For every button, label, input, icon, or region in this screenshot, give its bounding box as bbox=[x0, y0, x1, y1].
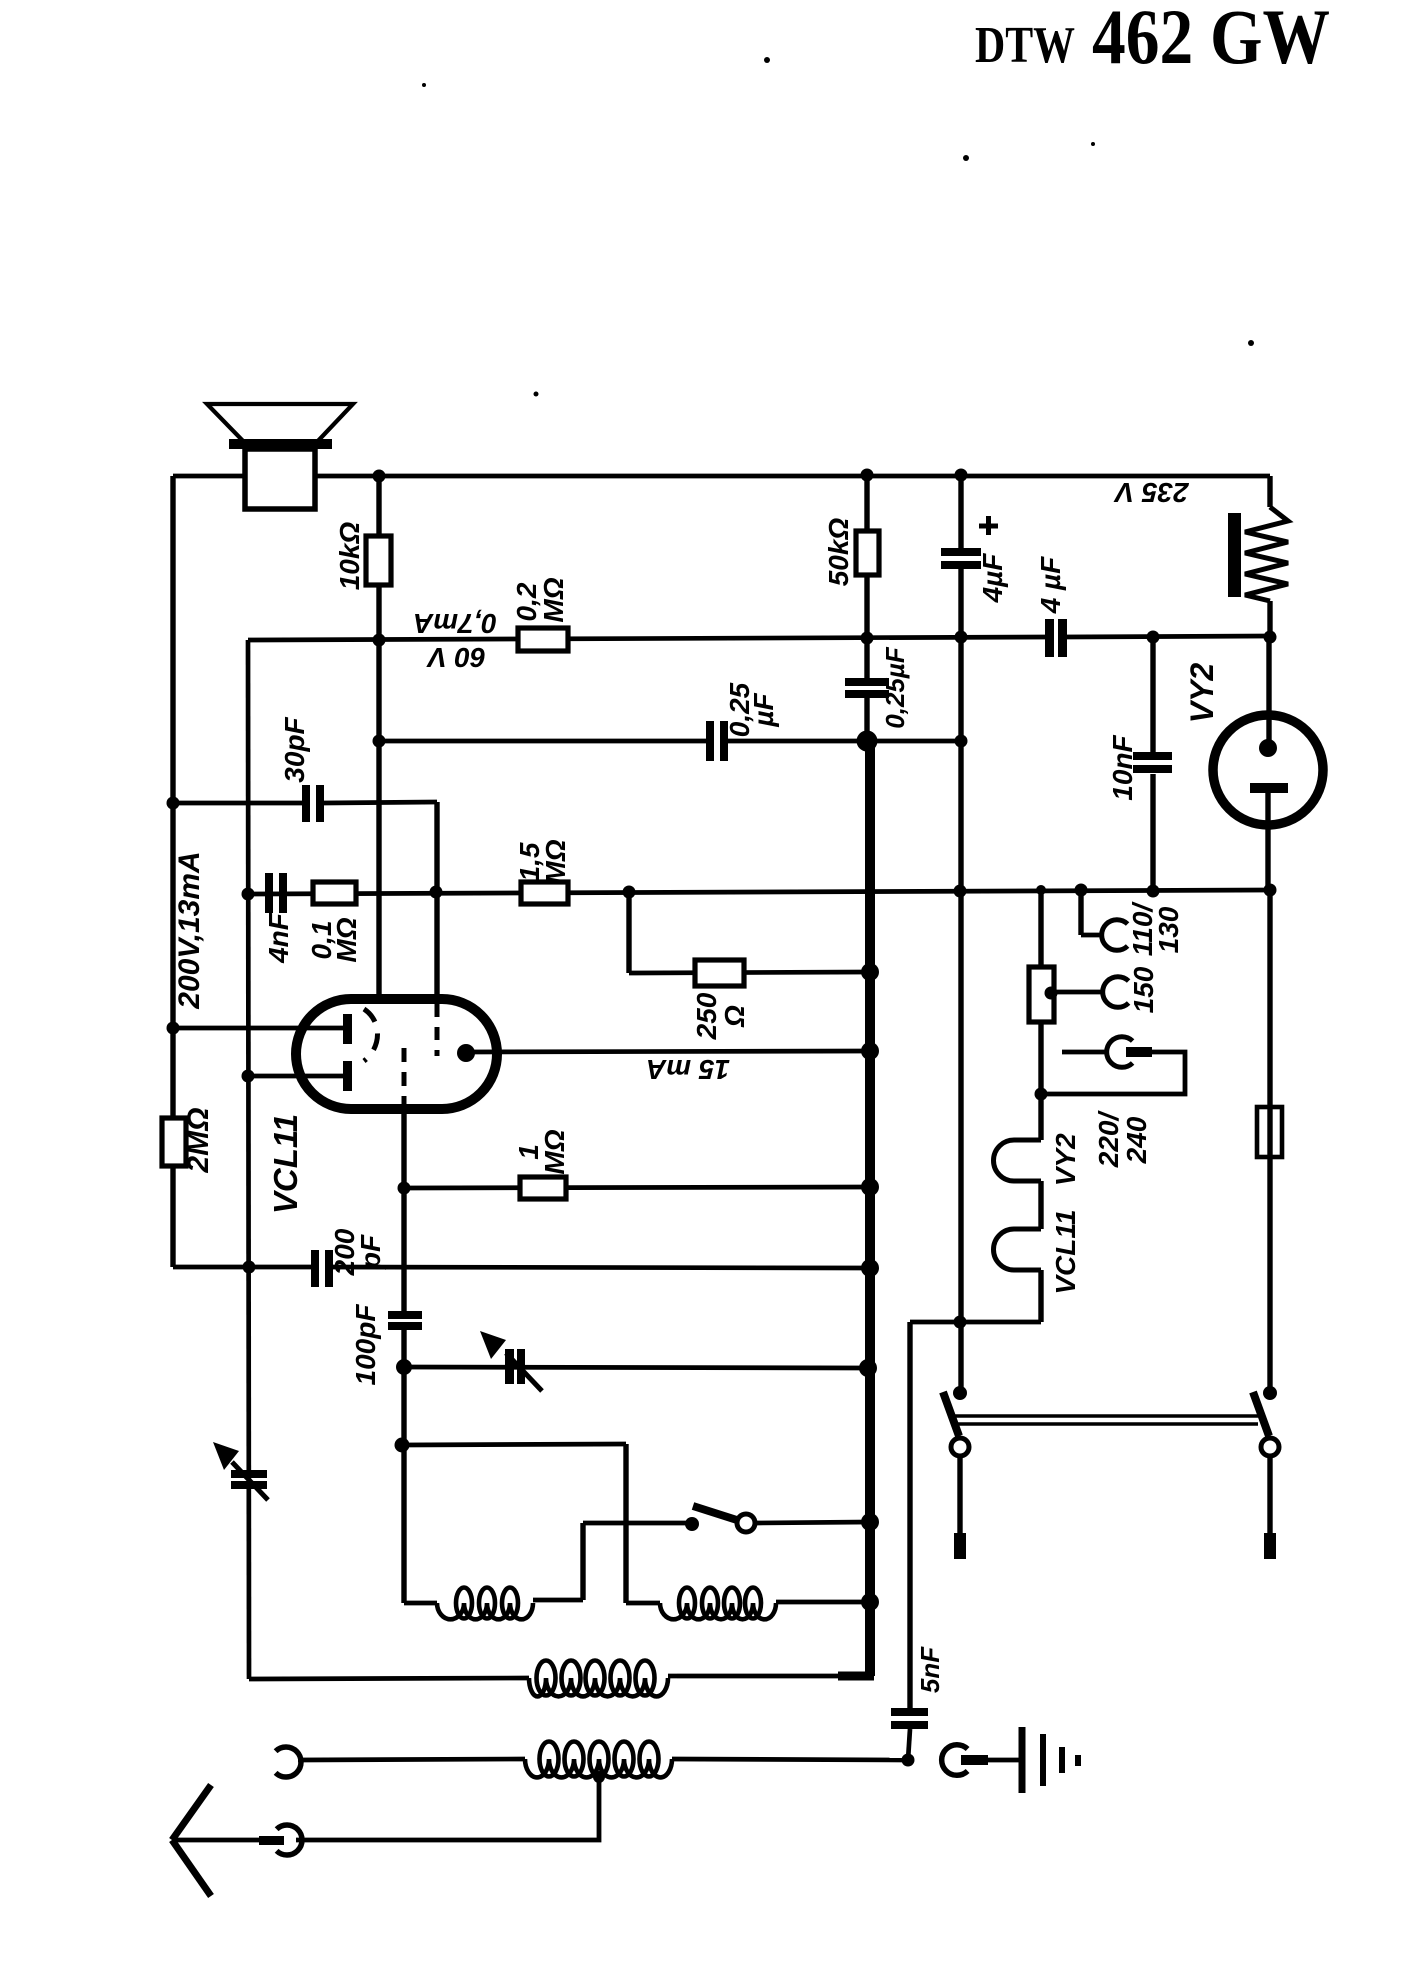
switch mains pole B contact bbox=[1261, 1438, 1279, 1456]
node x629 bbox=[623, 886, 636, 899]
node 1M to bus bbox=[861, 1178, 879, 1196]
speaker LS bbox=[207, 404, 353, 443]
ballast thick bar bbox=[1228, 513, 1241, 597]
wire HT feed x=867 bbox=[864, 476, 869, 679]
svg-text:10nF: 10nF bbox=[1107, 734, 1138, 800]
svg-text:0,25µF: 0,25µF bbox=[880, 646, 910, 729]
node x960 bbox=[954, 885, 967, 898]
coil L2 (osc) bbox=[626, 1601, 660, 1606]
svg-text:µF: µF bbox=[748, 692, 779, 727]
resistor dropper (tapped) bbox=[1029, 967, 1054, 1022]
ground symbol bbox=[1019, 1727, 1026, 1793]
wire VY2 anode down bbox=[1265, 793, 1270, 890]
svg-text:MΩ: MΩ bbox=[538, 577, 569, 622]
node x249 bbox=[243, 1261, 256, 1274]
socket 150 bbox=[1103, 977, 1129, 1008]
node 10nF bottom bbox=[1147, 885, 1160, 898]
wire anode lead y=1028 bbox=[173, 1026, 344, 1031]
wire 5nF x=910 bbox=[907, 1322, 912, 1710]
node cathode line x404 bbox=[398, 1182, 411, 1195]
wire 10nF x=1153 bbox=[1150, 637, 1155, 753]
svg-text:100pF: 100pF bbox=[350, 1304, 381, 1386]
wire top supply rail y=476 bbox=[173, 474, 1270, 479]
plug pin ground bbox=[961, 1755, 988, 1765]
capacitor 5nF bbox=[891, 1708, 928, 1716]
switch mains pole B lever bbox=[1253, 1392, 1269, 1436]
svg-text:60 V: 60 V bbox=[426, 642, 486, 673]
node cathode to bus bbox=[861, 1042, 879, 1060]
antenna symbol bbox=[172, 1785, 211, 1840]
grid g2 dashed bbox=[435, 1004, 440, 1056]
svg-text:130: 130 bbox=[1153, 906, 1184, 953]
wire bus bottom to L3 bbox=[838, 1672, 874, 1681]
node reservoir cap top bbox=[955, 469, 968, 482]
variable capacitor (tuning) plates bbox=[231, 1470, 267, 1478]
svg-text:0,7mA: 0,7mA bbox=[413, 608, 497, 639]
wire pole B down bbox=[1267, 1457, 1272, 1533]
node 200pF to bus bbox=[861, 1259, 879, 1277]
svg-text:VCL11 VY2: VCL11 VY2 bbox=[1050, 1133, 1081, 1295]
bus chassis (thick) x=870 bbox=[865, 741, 875, 1676]
node selector rail bbox=[1036, 885, 1046, 895]
wire tap 220/240 stub bbox=[1062, 1050, 1107, 1055]
node speaker/output junction bbox=[373, 470, 386, 483]
capacitor 30pF bbox=[302, 785, 310, 822]
wire heater chain bottom bbox=[1038, 1270, 1043, 1322]
electrode anode bar bbox=[343, 1014, 352, 1044]
node left rail / 30pF wire bbox=[167, 797, 180, 810]
svg-text:200V,13mA: 200V,13mA bbox=[173, 851, 206, 1009]
wire 60V rail x=249 bbox=[248, 640, 249, 1679]
svg-text:30pF: 30pF bbox=[279, 716, 310, 782]
switch mains pole B pivot bbox=[1263, 1386, 1277, 1400]
wire tap 110/130 bbox=[1078, 890, 1083, 935]
socket 220/240 bbox=[1107, 1037, 1133, 1068]
antenna socket bbox=[276, 1747, 301, 1777]
svg-text:15 mA: 15 mA bbox=[646, 1054, 730, 1085]
node tap 150 bbox=[1045, 987, 1058, 1000]
svg-text:250: 250 bbox=[691, 992, 722, 1040]
node selector 1094 bbox=[1035, 1088, 1048, 1101]
coil tap dot bbox=[593, 1771, 605, 1783]
node x404 varcap wire bbox=[396, 1359, 412, 1375]
svg-text:462 GW: 462 GW bbox=[1092, 0, 1330, 80]
node 5nF to antenna line bbox=[902, 1754, 915, 1767]
plug pin antenna bbox=[259, 1836, 284, 1845]
node x402 bbox=[395, 1438, 410, 1453]
VY2 anode bar bbox=[1250, 783, 1288, 793]
variable capacitor (osc) plates bbox=[505, 1349, 514, 1384]
cathode dashed lead bbox=[402, 1048, 407, 1108]
wire to VY2 bbox=[1266, 637, 1271, 749]
mains pin A bbox=[954, 1533, 966, 1559]
electrode screen bar bbox=[343, 1061, 352, 1091]
wire selector rail x=1041 bbox=[1038, 890, 1043, 1140]
resistor ballast zigzag bbox=[1245, 507, 1288, 601]
node 10nF top bbox=[1147, 631, 1160, 644]
node HT rail top bbox=[861, 469, 874, 482]
node 250Ω to bus bbox=[861, 963, 879, 981]
svg-text:240: 240 bbox=[1121, 1116, 1152, 1164]
resistor 50kΩ bbox=[856, 531, 879, 575]
switch contact bbox=[737, 1514, 755, 1532]
wire 30pF line y=803 bbox=[173, 801, 303, 806]
wire 200pF line y=1267 bbox=[173, 1265, 313, 1270]
node x960 y1322 bbox=[954, 1316, 967, 1329]
wire feedback y=1445 bbox=[402, 1444, 626, 1445]
svg-text:4µF: 4µF bbox=[977, 553, 1008, 604]
svg-text:VY2: VY2 bbox=[1184, 663, 1220, 724]
node varcap to bus bbox=[859, 1359, 877, 1377]
coil L1 (osc) bbox=[437, 1603, 533, 1619]
node x961 grid line bbox=[955, 735, 968, 748]
resistor 0,2MΩ bbox=[518, 628, 568, 651]
svg-text:VCL11: VCL11 bbox=[267, 1114, 304, 1214]
switch lever bbox=[693, 1506, 740, 1521]
svg-text:4nF: 4nF bbox=[263, 912, 294, 964]
capacitor 0,25µF (series) bbox=[706, 721, 714, 761]
node 60V x867 bbox=[861, 632, 874, 645]
wire grid2 feed x=437 bbox=[434, 802, 439, 1000]
wire antenna y=1760 bbox=[298, 1759, 525, 1760]
wire to L3 y=1679 bbox=[249, 1678, 529, 1679]
wire plug loop bbox=[1041, 1052, 1185, 1094]
wire ground lead bbox=[987, 1758, 1020, 1763]
wire L1 to switch bbox=[580, 1523, 585, 1600]
node x961 60V bbox=[955, 631, 968, 644]
capacitor 4nF bbox=[265, 873, 273, 913]
coil L4 (antenna secondary) bbox=[525, 1759, 672, 1777]
wire oscillator grid x=404 bbox=[401, 1108, 406, 1312]
switch mains pole A pivot bbox=[953, 1386, 967, 1400]
node tap 110/130 bbox=[1075, 884, 1088, 897]
node screen feed x248 bbox=[242, 1070, 255, 1083]
wire mains rail to switch bbox=[1267, 890, 1272, 1392]
capacitor 0,25µF (bus) bbox=[845, 678, 889, 686]
variable capacitor arrow bbox=[232, 1462, 268, 1500]
switch coupling bar bbox=[955, 1414, 1258, 1418]
wire cathode line y=1051 bbox=[466, 1051, 870, 1052]
svg-text:5nF: 5nF bbox=[915, 1646, 945, 1693]
switch wave-band pivot bbox=[685, 1517, 699, 1531]
variable capacitor arrow bbox=[506, 1353, 542, 1391]
wire AVC line y=893 bbox=[248, 890, 1270, 894]
svg-text:235 V: 235 V bbox=[1113, 477, 1189, 508]
wire antenna lead bbox=[172, 1838, 260, 1843]
wire rectifier output x=961 bbox=[958, 475, 963, 549]
svg-text:pF: pF bbox=[355, 1234, 386, 1270]
speck bbox=[764, 57, 770, 63]
wire y=1322 bbox=[910, 1320, 1041, 1325]
resistor 2MΩ bbox=[162, 1118, 186, 1166]
svg-text:DTW: DTW bbox=[975, 17, 1075, 74]
wire left rail x=173 bbox=[170, 476, 175, 1267]
wire pole A down bbox=[957, 1457, 962, 1533]
plug pin 220/240 bbox=[1126, 1047, 1152, 1057]
node left rail anode feed bbox=[167, 1022, 180, 1035]
wire tap 150 bbox=[1051, 990, 1104, 995]
resistor 250Ω bbox=[695, 960, 744, 986]
wire 250Ω branch bbox=[626, 892, 631, 973]
capacitor 4µF (series) bbox=[1045, 619, 1054, 657]
wire 1MΩ line y=1187 bbox=[404, 1187, 870, 1188]
svg-text:150: 150 bbox=[1128, 966, 1159, 1013]
node x248 bbox=[242, 888, 255, 901]
capacitor 100pF bbox=[388, 1311, 422, 1319]
switch mains pole A lever bbox=[943, 1392, 959, 1436]
heater VY2 bump bbox=[994, 1140, 1042, 1181]
node L2 to bus bbox=[861, 1593, 879, 1611]
node 60V right end bbox=[1264, 631, 1277, 644]
socket ground bbox=[942, 1745, 968, 1776]
wire mains rail x=1270 bbox=[1267, 476, 1272, 507]
svg-text:50kΩ: 50kΩ bbox=[823, 518, 854, 587]
socket antenna 2 bbox=[277, 1825, 302, 1855]
tube VY2 envelope bbox=[1213, 715, 1323, 825]
node 60V/10k junction bbox=[373, 634, 386, 647]
tube VCL11 envelope bbox=[296, 999, 497, 1109]
wire between heaters bbox=[1038, 1181, 1043, 1229]
heater VCL11 bump bbox=[994, 1229, 1042, 1270]
wire screen lead y=1076 bbox=[248, 1074, 344, 1079]
wire switch to bus bbox=[757, 1522, 870, 1523]
svg-text:220/: 220/ bbox=[1093, 1110, 1124, 1169]
svg-text:2MΩ: 2MΩ bbox=[182, 1107, 215, 1173]
resistor 0,1MΩ bbox=[313, 882, 356, 904]
wire coil tap bbox=[296, 1775, 599, 1840]
node at x379 bbox=[373, 735, 386, 748]
svg-text:MΩ: MΩ bbox=[539, 1129, 570, 1174]
svg-text:MΩ: MΩ bbox=[331, 917, 362, 962]
node big junction bus top bbox=[857, 731, 878, 752]
socket 110/130 bbox=[1102, 920, 1128, 951]
VY2 filament dot bbox=[1259, 739, 1277, 757]
svg-text:10kΩ: 10kΩ bbox=[334, 522, 365, 591]
node VY2 bottom rail bbox=[1264, 884, 1277, 897]
wire oscillator tuning y=1367 bbox=[404, 1367, 868, 1368]
node switch to bus bbox=[861, 1513, 879, 1531]
wire 60V line y=638 bbox=[248, 637, 1046, 640]
coil L3 (antenna primary) bbox=[529, 1678, 668, 1696]
capacitor 4µF + (electrolytic) bbox=[941, 548, 981, 556]
capacitor 200pF bbox=[311, 1250, 319, 1287]
wire grid-coupling line y=741 bbox=[379, 739, 708, 744]
cathode dot bbox=[457, 1044, 475, 1062]
node grid junction x436 bbox=[430, 886, 443, 899]
resistor 1MΩ bbox=[520, 1177, 566, 1199]
resistor 10kΩ bbox=[376, 476, 381, 999]
switch mains pole A contact bbox=[951, 1438, 969, 1456]
resistor 1,5MΩ bbox=[521, 882, 568, 904]
wire zigzag to node bbox=[1267, 601, 1272, 637]
capacitor 10nF bbox=[1133, 752, 1172, 760]
svg-text:4 µF: 4 µF bbox=[1035, 556, 1066, 614]
svg-text:MΩ: MΩ bbox=[540, 839, 571, 884]
grid g1 dashed arc bbox=[364, 1009, 378, 1061]
mains pin B bbox=[1264, 1533, 1276, 1559]
fuse bbox=[1257, 1107, 1282, 1157]
wire down x=626 bbox=[623, 1444, 628, 1603]
svg-text:Ω: Ω bbox=[719, 1005, 750, 1028]
